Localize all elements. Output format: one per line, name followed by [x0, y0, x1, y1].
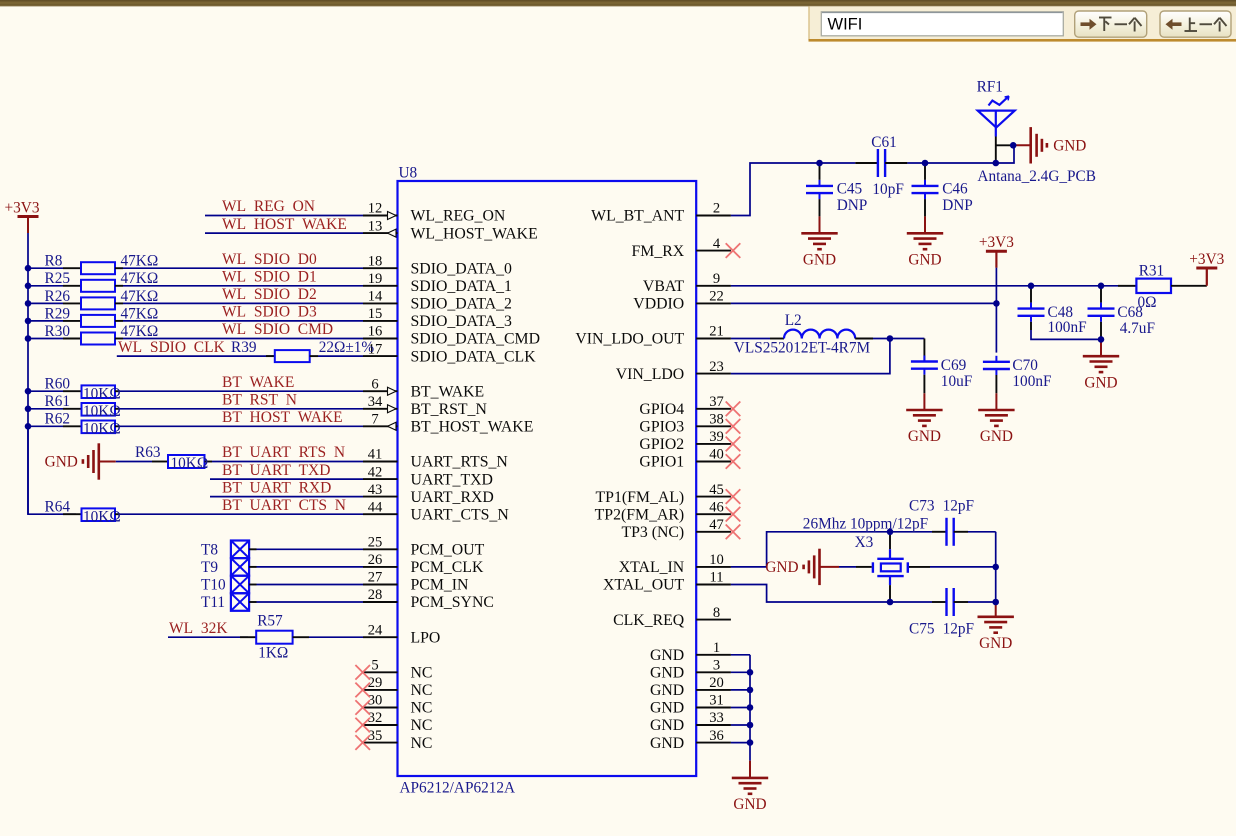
svg-text:44: 44	[368, 499, 383, 515]
pin 14 (SDIO_DATA_2)	[363, 302, 398, 304]
svg-text:26: 26	[368, 552, 383, 568]
junction bus R62 row	[25, 423, 32, 430]
svg-text:WL SDIO CLK: WL SDIO CLK	[118, 339, 226, 356]
pin 46 (TP2(FM_AR))	[696, 513, 731, 515]
svg-text:2: 2	[713, 201, 720, 217]
capacitor C70	[995, 356, 997, 362]
pin 13 (WL_HOST_WAKE)	[363, 232, 398, 234]
pin 36 (GND)	[696, 742, 731, 744]
button prev (上一个)	[1160, 11, 1231, 37]
svg-text:BT UART CTS N: BT UART CTS N	[222, 497, 346, 514]
svg-text:24: 24	[368, 622, 383, 638]
svg-text:WL SDIO D3: WL SDIO D3	[222, 304, 317, 321]
capacitor C46	[924, 180, 926, 186]
pin 31 (GND)	[696, 707, 731, 709]
wire R57 to pin 24	[309, 636, 363, 638]
svg-text:BT_RST_N: BT_RST_N	[411, 401, 488, 418]
capacitor C48 pin upper	[1030, 286, 1032, 303]
junction bus R25 row	[25, 283, 32, 290]
junction bus R30 row	[25, 335, 32, 342]
wire R61 to pin	[120, 408, 363, 410]
pin 10 (XTAL_IN)	[696, 566, 731, 568]
capacitor C46 pin lower	[924, 199, 926, 216]
wire R60 to pin	[120, 390, 363, 392]
capacitor C45 pin lower	[819, 199, 821, 216]
ground under C45	[801, 233, 837, 249]
pin 21 (VIN_LDO_OUT)	[696, 338, 731, 340]
resistor R30	[63, 338, 81, 340]
wire bus to R62	[28, 425, 63, 427]
capacitor C68 pin upper	[1100, 286, 1102, 303]
wire R29 to pin	[123, 320, 363, 322]
svg-text:28: 28	[368, 587, 383, 603]
svg-text:C46: C46	[942, 180, 968, 197]
ground under C46	[907, 233, 943, 249]
svg-text:40: 40	[709, 447, 724, 463]
svg-text:47: 47	[709, 517, 724, 533]
svg-text:VDDIO: VDDIO	[633, 296, 684, 313]
svg-text:36: 36	[709, 728, 724, 744]
wire VDDIO	[731, 302, 997, 304]
wire C75 to right rail	[968, 601, 996, 603]
wire +3V3 bus vertical	[27, 233, 29, 514]
wire GND pin 1	[731, 654, 750, 656]
svg-text:T10: T10	[201, 577, 226, 594]
capacitor C61	[877, 149, 879, 177]
inductor L2	[784, 330, 855, 339]
junction bus R26 row	[25, 300, 32, 307]
svg-text:WL SDIO D1: WL SDIO D1	[222, 269, 317, 286]
resistor R57	[240, 636, 256, 638]
svg-text:RF1: RF1	[977, 79, 1003, 96]
wire +3V3 right stem	[1206, 268, 1208, 286]
svg-text:14: 14	[368, 289, 383, 305]
wire +3V3 bus to C70	[995, 268, 997, 353]
svg-text:UART_RXD: UART_RXD	[411, 489, 494, 506]
svg-text:GND: GND	[650, 735, 684, 752]
svg-text:GND: GND	[650, 717, 684, 734]
svg-text:BT WAKE: BT WAKE	[222, 374, 294, 391]
svg-text:VIN_LDO_OUT: VIN_LDO_OUT	[575, 331, 684, 348]
svg-text:+3V3: +3V3	[5, 199, 40, 216]
inductor L2 right pin	[855, 338, 873, 340]
pin 15 (SDIO_DATA_3)	[363, 320, 398, 322]
svg-text:DNP: DNP	[942, 197, 973, 214]
capacitor C73	[945, 518, 947, 546]
svg-text:UART_TXD: UART_TXD	[411, 471, 493, 488]
svg-text:L2: L2	[785, 312, 802, 329]
svg-text:VLS252012ET-4R7M: VLS252012ET-4R7M	[734, 340, 871, 357]
svg-text:BT UART TXD: BT UART TXD	[222, 462, 330, 479]
svg-text:26Mhz 10ppm/12pF: 26Mhz 10ppm/12pF	[803, 516, 928, 533]
svg-text:46: 46	[709, 499, 724, 515]
wire bus to R60	[28, 390, 63, 392]
junction C48 C68 bottom	[1098, 336, 1105, 343]
wire R26 to pin	[123, 302, 363, 304]
svg-text:R31: R31	[1139, 263, 1165, 280]
svg-text:47KΩ: 47KΩ	[121, 323, 159, 340]
wire antenna to gnd riser	[996, 145, 1014, 163]
wire bus to R26	[28, 302, 63, 304]
test point T9	[231, 558, 249, 576]
svg-text:GND: GND	[650, 682, 684, 699]
crystal X3 bottom pin	[889, 585, 891, 602]
ground at crystal	[804, 549, 820, 585]
test point T10	[231, 576, 249, 594]
svg-text:C73: C73	[909, 497, 935, 514]
pin 28 (PCM_SYNC)	[363, 601, 398, 603]
junction VDDIO bus	[993, 300, 1000, 307]
svg-text:C61: C61	[871, 134, 897, 151]
svg-text:R8: R8	[45, 253, 63, 270]
junction GND rail 33	[747, 722, 754, 729]
pin 33 (GND)	[696, 724, 731, 726]
wire WL_SDIO_CLK right	[318, 355, 363, 357]
svg-text:SDIO_DATA_2: SDIO_DATA_2	[411, 296, 513, 313]
no-connect X pin 38	[726, 419, 741, 434]
svg-text:19: 19	[368, 271, 383, 287]
wire antenna case L	[996, 144, 1013, 146]
svg-text:WL HOST WAKE: WL HOST WAKE	[222, 216, 347, 233]
pin 7 (BT_HOST_WAKE)	[363, 425, 398, 427]
svg-text:1: 1	[713, 640, 720, 656]
svg-text:NC: NC	[411, 735, 433, 752]
no-connect X pin 35	[355, 735, 370, 750]
svg-text:+3V3: +3V3	[979, 234, 1014, 251]
no-connect X pin 4	[726, 243, 741, 258]
svg-text:Antana_2.4G_PCB: Antana_2.4G_PCB	[977, 168, 1096, 185]
svg-text:31: 31	[709, 693, 724, 709]
svg-text:C45: C45	[837, 180, 863, 197]
svg-text:SDIO_DATA_3: SDIO_DATA_3	[411, 313, 513, 330]
svg-text:WL_REG_ON: WL_REG_ON	[411, 208, 506, 225]
wire R63 to pin 41	[212, 461, 363, 463]
svg-text:BT_HOST_WAKE: BT_HOST_WAKE	[411, 419, 534, 436]
wire C75 right pin	[954, 601, 968, 603]
svg-text:PCM_SYNC: PCM_SYNC	[411, 594, 494, 611]
junction crystal top	[887, 529, 894, 536]
junction bus R60 row	[25, 388, 32, 395]
svg-text:BT UART RTS N: BT UART RTS N	[222, 444, 345, 461]
no-connect X pin 29	[355, 683, 370, 698]
wire C61 right pin	[885, 162, 907, 164]
svg-text:100nF: 100nF	[1048, 319, 1087, 336]
test point T11	[231, 593, 249, 611]
pin 19 (SDIO_DATA_1)	[363, 285, 398, 287]
wire WL_HOST_WAKE	[205, 232, 363, 234]
junction RF at C46	[922, 160, 929, 167]
pin 38 (GPIO3)	[696, 425, 731, 427]
wire pin21 to L2	[731, 338, 770, 340]
wire R30 to pin	[123, 338, 363, 340]
svg-text:20: 20	[709, 675, 724, 691]
svg-text:12pF: 12pF	[943, 621, 974, 638]
svg-text:33: 33	[709, 710, 724, 726]
junction GND rail 31	[747, 704, 754, 711]
svg-text:47KΩ: 47KΩ	[121, 253, 159, 270]
junction GND rail 20	[747, 687, 754, 694]
svg-text:27: 27	[368, 570, 383, 586]
pin 4 (FM_RX)	[696, 250, 731, 252]
svg-text:8: 8	[713, 605, 720, 621]
wire C69 to ground	[923, 393, 925, 410]
svg-text:BT_WAKE: BT_WAKE	[411, 383, 485, 400]
pin 29 (NC)	[363, 689, 398, 691]
svg-text:21: 21	[709, 324, 724, 340]
svg-text:R26: R26	[45, 288, 71, 305]
svg-text:12pF: 12pF	[943, 497, 974, 514]
resistor R29	[63, 320, 81, 322]
svg-text:15: 15	[368, 306, 383, 322]
svg-text:C75: C75	[909, 621, 935, 638]
svg-text:FM_RX: FM_RX	[632, 243, 685, 260]
ground at R63	[83, 443, 99, 479]
wire T9 to pin	[249, 566, 256, 568]
power +3V3 top-left bar	[18, 215, 39, 218]
svg-text:12: 12	[368, 201, 383, 217]
wire bus to R25	[28, 285, 63, 287]
wire VBAT trunk	[731, 285, 1137, 287]
svg-text:10KΩ: 10KΩ	[83, 421, 121, 438]
pin 6 (BT_WAKE)	[363, 390, 398, 392]
svg-text:T9: T9	[201, 559, 218, 576]
svg-text:18: 18	[368, 253, 383, 269]
svg-text:XTAL_OUT: XTAL_OUT	[603, 577, 685, 594]
capacitor C69 pin lower	[923, 375, 925, 394]
svg-text:45: 45	[709, 482, 724, 498]
pin 35 (NC)	[363, 742, 398, 744]
svg-text:X3: X3	[855, 534, 874, 551]
svg-text:SDIO_DATA_1: SDIO_DATA_1	[411, 278, 512, 295]
capacitor C70 pin lower	[995, 375, 997, 393]
svg-text:NC: NC	[411, 700, 433, 717]
wire C73 right pin	[954, 531, 968, 533]
junction L2 out	[887, 335, 894, 342]
pin 12 (WL_REG_ON)	[363, 215, 398, 217]
wire WL_REG_ON	[205, 215, 363, 217]
wire BT_UART_TXD	[210, 478, 363, 480]
svg-text:GND: GND	[979, 635, 1012, 652]
wire right rail	[995, 532, 997, 602]
junction right rail bottom	[992, 599, 999, 606]
svg-text:WL REG ON: WL REG ON	[222, 198, 315, 215]
resistor R61	[63, 408, 81, 410]
svg-text:GND: GND	[908, 252, 941, 269]
wire rail to ground	[995, 602, 997, 617]
wire GND rail maroon	[749, 761, 751, 778]
wire maroon stub at R63 ground	[99, 461, 116, 463]
wire R8 to pin	[123, 267, 363, 269]
svg-text:10pF: 10pF	[872, 181, 903, 198]
capacitor C68 pin lower	[1100, 322, 1102, 340]
svg-text:TP2(FM_AR): TP2(FM_AR)	[595, 506, 685, 523]
wire C48 bottom	[1031, 330, 1101, 339]
svg-text:10KΩ: 10KΩ	[83, 385, 121, 402]
svg-text:LPO: LPO	[411, 629, 441, 646]
svg-text:13: 13	[368, 218, 383, 234]
svg-text:BT UART RXD: BT UART RXD	[222, 479, 331, 496]
capacitor C69	[923, 356, 925, 362]
wire bus to R29	[28, 320, 63, 322]
resistor R64	[63, 513, 81, 515]
svg-text:BT HOST WAKE: BT HOST WAKE	[222, 409, 343, 426]
junction bus R29 row	[25, 318, 32, 325]
svg-text:GND: GND	[650, 647, 684, 664]
pin 41 (UART_RTS_N)	[363, 461, 398, 463]
wire R31 to +3V3	[1171, 285, 1207, 287]
pin 9 (VBAT)	[696, 285, 731, 287]
svg-text:WL SDIO CMD: WL SDIO CMD	[222, 321, 333, 338]
junction antenna base	[993, 160, 1000, 167]
svg-text:37: 37	[709, 394, 724, 410]
svg-text:R30: R30	[45, 323, 71, 340]
resistor R8	[63, 267, 81, 269]
svg-text:R63: R63	[135, 444, 161, 461]
pin 26 (PCM_CLK)	[363, 566, 398, 568]
svg-text:PCM_OUT: PCM_OUT	[411, 542, 485, 559]
wire T11 to pin	[249, 601, 256, 603]
svg-text:4.7uF: 4.7uF	[1120, 320, 1155, 337]
pin 37 (GPIO4)	[696, 408, 731, 410]
wire GND pin 20	[731, 689, 750, 691]
wire gnd to crystal left	[839, 566, 856, 568]
svg-text:C69: C69	[941, 357, 967, 374]
svg-text:GND: GND	[765, 559, 798, 576]
svg-text:NC: NC	[411, 682, 433, 699]
pin 25 (PCM_OUT)	[363, 548, 398, 550]
svg-text:47KΩ: 47KΩ	[121, 305, 159, 322]
svg-text:SDIO_DATA_CMD: SDIO_DATA_CMD	[411, 331, 541, 348]
wire BT_UART_RXD	[210, 496, 363, 498]
junction right rail mid	[992, 564, 999, 571]
wire left rail up	[767, 532, 932, 567]
pin 8 (CLK_REQ)	[696, 619, 731, 621]
ground under C69	[906, 410, 942, 426]
capacitor C69 pin upper	[923, 339, 925, 362]
svg-text:GND: GND	[908, 428, 941, 445]
svg-text:41: 41	[368, 447, 383, 463]
no-connect X pin 45	[726, 489, 741, 504]
wire pin11 XTAL_OUT	[731, 585, 932, 603]
svg-text:R62: R62	[45, 411, 71, 428]
junction crystal bottom	[887, 599, 894, 606]
svg-text:GND: GND	[733, 796, 766, 813]
svg-text:10: 10	[709, 552, 724, 568]
svg-text:WL 32K: WL 32K	[169, 620, 228, 637]
capacitor C48 pin lower	[1030, 322, 1032, 330]
wire C73 left pin	[932, 531, 947, 533]
svg-text:R29: R29	[45, 305, 71, 322]
wire L2 to junction	[873, 338, 890, 340]
resistor R62	[63, 425, 81, 427]
pin 45 (TP1(FM_AL))	[696, 496, 731, 498]
wire C68 to ground	[1100, 339, 1102, 356]
power +3V3 mid	[986, 250, 1007, 253]
pin 20 (GND)	[696, 689, 731, 691]
no-connect X pin 39	[726, 437, 741, 452]
pin 30 (NC)	[363, 707, 398, 709]
wire GND pin 3	[731, 671, 750, 673]
pin 22 (VDDIO)	[696, 302, 731, 304]
junction bus R8 row	[25, 265, 32, 272]
capacitor C75	[945, 588, 947, 616]
svg-text:39: 39	[709, 429, 724, 445]
wire GND pin 33	[731, 724, 750, 726]
svg-text:AP6212/AP6212A: AP6212/AP6212A	[400, 780, 516, 797]
wire bus to R8	[28, 267, 63, 269]
pin 32 (NC)	[363, 724, 398, 726]
svg-text:BT RST N: BT RST N	[222, 392, 297, 409]
wire crystal gnd stub	[820, 566, 840, 568]
op-amp-like IC U8 body	[398, 181, 697, 776]
wire C73 to right rail	[968, 531, 996, 533]
pin 27 (PCM_IN)	[363, 584, 398, 586]
resistor R25	[63, 285, 81, 287]
wire WL_32K left	[168, 636, 248, 638]
svg-text:GPIO3: GPIO3	[639, 419, 684, 436]
svg-text:GND: GND	[1053, 138, 1086, 155]
svg-text:R60: R60	[45, 376, 71, 393]
pin 1 (GND)	[696, 654, 731, 656]
wire pin10 XTAL_IN	[731, 566, 767, 568]
wire VIN_LDO loop	[731, 339, 890, 374]
svg-text:VIN_LDO: VIN_LDO	[616, 366, 684, 383]
antenna RF1	[978, 96, 1015, 136]
svg-text:PCM_CLK: PCM_CLK	[411, 559, 484, 576]
svg-text:+3V3: +3V3	[1189, 251, 1224, 268]
svg-text:SDIO_DATA_CLK: SDIO_DATA_CLK	[411, 348, 537, 365]
svg-text:GND: GND	[45, 454, 78, 471]
pin 34 (BT_RST_N)	[363, 408, 398, 410]
wire L2 junction to C69	[890, 338, 925, 340]
crystal X3 top pin	[889, 532, 891, 549]
pin 17 (SDIO_DATA_CLK)	[363, 355, 398, 357]
wire bus corner to R64	[28, 426, 76, 514]
ground under C68	[1083, 356, 1119, 372]
resistor R39	[266, 355, 275, 357]
svg-text:NC: NC	[411, 717, 433, 734]
svg-text:9: 9	[713, 271, 720, 287]
search input	[821, 12, 1063, 36]
wire +3V3 mid stem	[995, 251, 997, 268]
junction GND rail 36	[747, 739, 754, 746]
wire GND to R63	[116, 461, 152, 463]
svg-text:1KΩ: 1KΩ	[258, 645, 288, 662]
wire bus to R30	[28, 338, 63, 340]
svg-text:GPIO2: GPIO2	[639, 436, 684, 453]
browser top bar	[0, 0, 1236, 6]
capacitor C45 pin upper	[819, 163, 821, 180]
svg-text:47KΩ: 47KΩ	[121, 288, 159, 305]
ground under IC	[732, 778, 768, 794]
svg-text:R61: R61	[45, 393, 71, 410]
no-connect X pin 46	[726, 507, 741, 522]
no-connect X pin 5	[355, 665, 370, 680]
button next (下一个)	[1075, 11, 1147, 37]
power +3V3 right	[1196, 267, 1217, 270]
svg-text:T8: T8	[201, 542, 218, 559]
svg-text:42: 42	[368, 464, 383, 480]
svg-text:GND: GND	[650, 665, 684, 682]
wire GND rail	[749, 655, 751, 761]
capacitor C46 pin upper	[924, 163, 926, 180]
ground under C70	[978, 410, 1014, 426]
search panel	[809, 6, 1236, 39]
pin 44 (UART_CTS_N)	[363, 513, 398, 515]
wire pin2 to RF trunk	[731, 163, 855, 216]
junction bus R61 row	[25, 406, 32, 413]
test point T8	[231, 541, 249, 559]
